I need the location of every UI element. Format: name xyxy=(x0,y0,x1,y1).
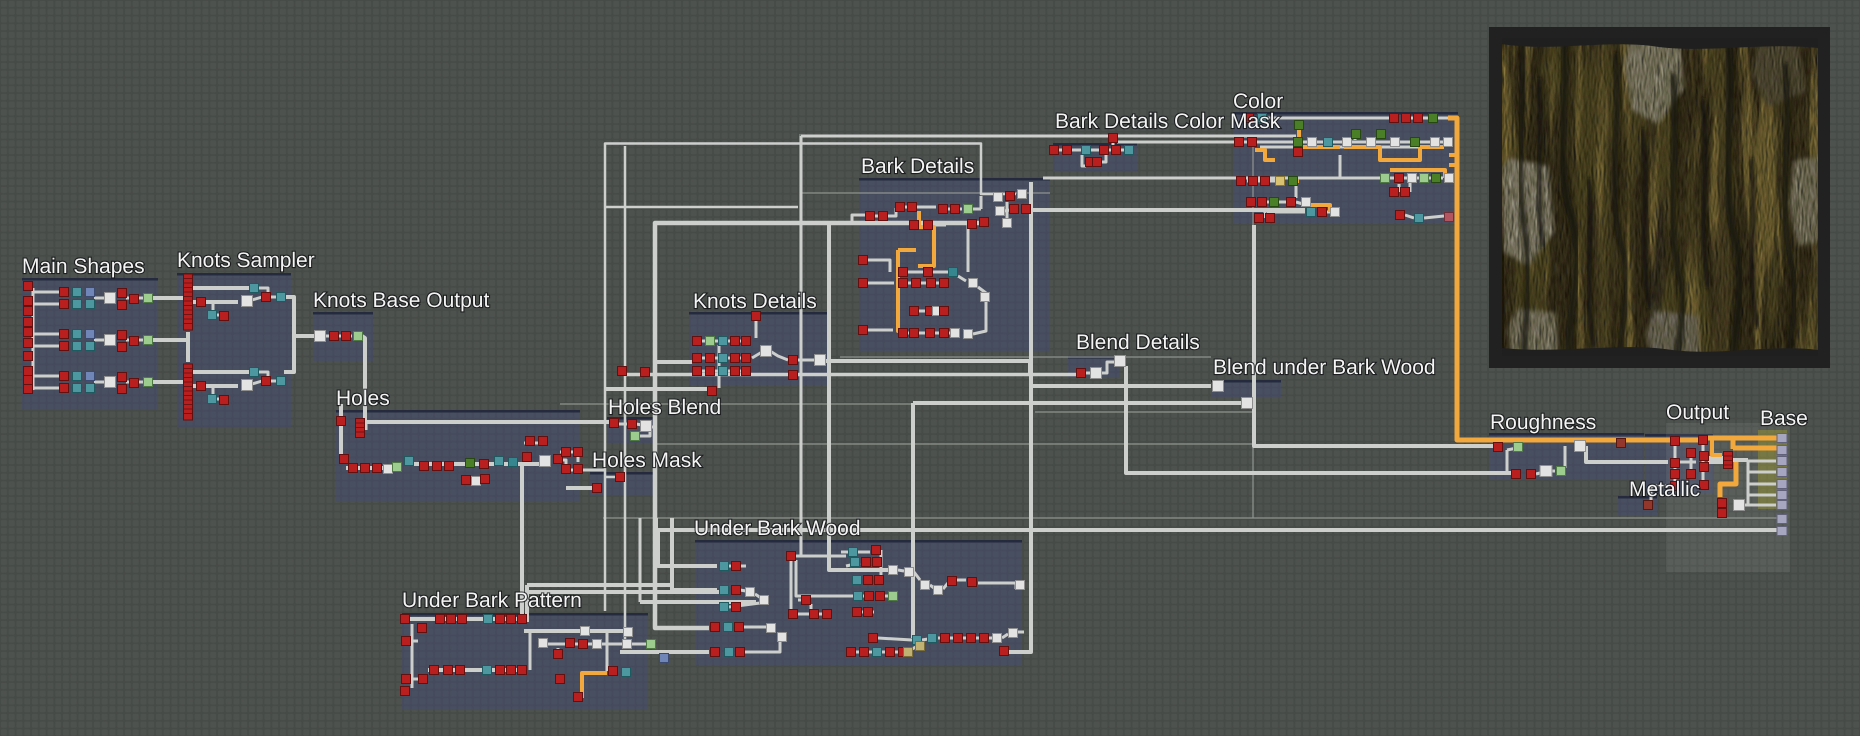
wire xyxy=(605,206,798,209)
svg-text:Metallic: Metallic xyxy=(1629,478,1700,501)
group panel "Blend Details" xyxy=(1068,356,1120,378)
node red xyxy=(1700,463,1709,472)
node white xyxy=(105,335,116,346)
node red xyxy=(1248,138,1257,147)
node white xyxy=(993,634,1002,643)
node red xyxy=(869,634,878,643)
node red xyxy=(731,354,740,363)
wire xyxy=(1690,452,1693,472)
wire xyxy=(1339,155,1342,178)
node red xyxy=(24,376,33,385)
wire xyxy=(1336,146,1430,149)
group panel "Knots Details" xyxy=(689,312,830,385)
wire xyxy=(527,590,720,594)
wire xyxy=(1002,634,1008,638)
node teal xyxy=(483,666,492,675)
wire xyxy=(605,144,1016,612)
node dgreen xyxy=(1295,121,1304,130)
node red xyxy=(60,330,69,339)
node teal xyxy=(720,562,729,571)
wire xyxy=(404,462,545,466)
node red xyxy=(810,610,819,619)
wire xyxy=(801,135,1296,138)
group panel "Bark Details Color Mask" xyxy=(1053,143,1137,172)
node red xyxy=(1671,482,1680,491)
wire xyxy=(938,637,992,640)
wire (highlighted orange) xyxy=(898,248,916,252)
node red xyxy=(859,279,868,288)
node dgreen xyxy=(466,459,475,468)
node red xyxy=(337,417,346,426)
node red xyxy=(910,307,919,316)
svg-text:Knots Details: Knots Details xyxy=(693,290,817,313)
group panel "Output" xyxy=(1645,434,1713,493)
node red xyxy=(1237,177,1246,186)
node red xyxy=(356,419,365,438)
node red xyxy=(433,462,442,471)
node teal xyxy=(1082,146,1091,155)
wire xyxy=(1507,447,1522,450)
node dgreen xyxy=(1270,198,1279,207)
wire xyxy=(252,381,262,384)
wire (highlighted orange) xyxy=(1390,170,1445,178)
wire xyxy=(852,579,862,582)
node red xyxy=(927,279,936,288)
wire xyxy=(852,595,864,598)
node red xyxy=(1050,146,1059,155)
wire xyxy=(744,640,780,652)
node teal xyxy=(720,603,729,612)
wire xyxy=(1108,149,1125,152)
node red xyxy=(1235,138,1244,147)
node teal xyxy=(853,576,862,585)
node white xyxy=(1302,198,1311,207)
node red xyxy=(330,332,339,341)
wire xyxy=(346,466,400,470)
node lav xyxy=(1777,446,1787,455)
node red xyxy=(1724,452,1733,469)
wire xyxy=(922,639,928,640)
node teal xyxy=(73,384,82,393)
wire xyxy=(605,387,708,391)
node lav xyxy=(1777,515,1787,524)
wire xyxy=(636,424,642,425)
node white xyxy=(1009,629,1018,638)
node red xyxy=(693,367,702,376)
wire xyxy=(878,638,912,640)
node red xyxy=(735,623,744,632)
wire xyxy=(639,518,642,602)
node tan xyxy=(904,648,913,657)
node red xyxy=(420,462,429,471)
wire xyxy=(868,260,890,272)
node white xyxy=(969,279,978,288)
node white xyxy=(1540,466,1552,477)
node red xyxy=(373,464,382,473)
node white xyxy=(1343,138,1352,147)
node pink xyxy=(1445,213,1454,222)
node red xyxy=(184,364,193,420)
node red xyxy=(708,387,717,396)
node white xyxy=(105,293,116,304)
svg-text:Blend under Bark Wood: Blend under Bark Wood xyxy=(1213,356,1436,379)
wire xyxy=(152,296,186,300)
wire xyxy=(126,381,152,384)
wire xyxy=(980,196,983,209)
node white xyxy=(1431,138,1440,147)
wire xyxy=(755,594,764,600)
node red xyxy=(447,615,456,624)
wire (highlighted orange) xyxy=(1308,205,1330,212)
node red xyxy=(496,615,505,624)
svg-text:Blend Details: Blend Details xyxy=(1076,331,1200,354)
node dred xyxy=(1617,439,1626,448)
wire xyxy=(978,583,1016,589)
node white xyxy=(996,207,1005,216)
node white xyxy=(1003,219,1012,228)
wire xyxy=(913,401,1244,405)
node lav xyxy=(1777,434,1787,443)
node lgreen xyxy=(1381,174,1390,183)
node red xyxy=(875,576,884,585)
wire xyxy=(339,404,343,462)
wire xyxy=(258,372,277,381)
wire xyxy=(1043,177,1380,180)
node white xyxy=(623,640,632,649)
node red xyxy=(866,212,875,221)
node blue xyxy=(86,372,95,381)
node red xyxy=(941,634,950,643)
wire xyxy=(790,556,793,614)
node red xyxy=(896,203,905,212)
node red xyxy=(507,615,516,624)
wire xyxy=(884,595,888,598)
node white xyxy=(593,640,602,649)
node red xyxy=(899,648,908,657)
node lgreen xyxy=(144,294,153,303)
node red xyxy=(340,455,349,464)
node lgreen xyxy=(706,337,715,346)
node white xyxy=(581,627,590,636)
wire xyxy=(1732,458,1748,462)
node white xyxy=(1408,174,1417,183)
node red xyxy=(481,475,490,484)
node teal xyxy=(928,634,937,643)
node red xyxy=(1494,443,1503,452)
node white xyxy=(1445,174,1454,183)
node white xyxy=(641,421,652,432)
selection highlight overlay near Output xyxy=(1666,423,1790,572)
node red xyxy=(876,592,885,601)
node red xyxy=(1287,198,1296,207)
node teal xyxy=(1258,114,1267,123)
node red xyxy=(879,212,888,221)
node red xyxy=(823,610,832,619)
node red xyxy=(1093,158,1102,167)
node white xyxy=(539,639,548,648)
node red xyxy=(419,675,428,684)
node red xyxy=(1700,481,1709,490)
wire xyxy=(625,373,1076,377)
node teal xyxy=(495,457,504,466)
wire xyxy=(213,386,220,399)
wire xyxy=(918,310,940,313)
node white xyxy=(540,456,551,467)
node lgreen xyxy=(1557,467,1566,476)
node red xyxy=(574,465,583,474)
node white xyxy=(1115,356,1126,367)
node red xyxy=(60,372,69,381)
node teal xyxy=(719,367,728,376)
wire xyxy=(1004,182,1031,652)
node red xyxy=(706,367,715,376)
group panel "Roughness" xyxy=(1489,433,1644,480)
node red xyxy=(1687,470,1696,479)
group panel "Holes" xyxy=(336,410,580,502)
node red xyxy=(458,615,467,624)
wire xyxy=(880,550,883,575)
wire xyxy=(862,611,874,614)
node white xyxy=(815,355,826,366)
node white xyxy=(905,568,914,577)
node dgreen xyxy=(1432,174,1441,183)
node teal xyxy=(1324,138,1333,147)
node red xyxy=(899,329,908,338)
svg-text:Holes: Holes xyxy=(336,387,390,410)
wire xyxy=(770,351,788,360)
node red xyxy=(430,666,439,675)
wire xyxy=(366,420,609,424)
node red xyxy=(1395,174,1404,183)
node blue xyxy=(660,654,669,663)
node red xyxy=(1699,436,1708,445)
wire xyxy=(553,460,604,470)
node teal xyxy=(719,354,728,363)
node white xyxy=(1016,581,1025,590)
node red xyxy=(1006,192,1015,201)
node red xyxy=(220,312,229,321)
node white xyxy=(1367,138,1376,147)
node red xyxy=(197,298,206,307)
node red xyxy=(456,666,465,675)
node lgreen xyxy=(889,592,898,601)
node red xyxy=(742,354,751,363)
node red xyxy=(523,453,532,462)
node red xyxy=(1245,114,1254,123)
node red xyxy=(924,268,933,277)
node red xyxy=(24,339,33,348)
node teal xyxy=(73,288,82,297)
node white xyxy=(1331,208,1340,217)
node dgreen xyxy=(1352,130,1361,139)
node white xyxy=(242,380,253,391)
node red xyxy=(118,373,127,382)
node lgreen xyxy=(631,432,640,441)
wire xyxy=(1013,632,1024,637)
wire xyxy=(1507,450,1516,473)
node red xyxy=(445,462,454,471)
node red xyxy=(526,437,535,446)
wire xyxy=(32,288,35,390)
wire xyxy=(94,297,116,300)
svg-text:Bark Details Color Mask: Bark Details Color Mask xyxy=(1055,110,1281,133)
group panel "Color" xyxy=(1233,112,1458,223)
node dgreen xyxy=(1289,177,1298,186)
node red xyxy=(593,484,602,493)
wire xyxy=(700,340,748,343)
node dgreen xyxy=(1411,138,1420,147)
node white xyxy=(1444,138,1453,147)
wire xyxy=(606,632,609,671)
wire xyxy=(656,518,1782,530)
node red xyxy=(342,332,351,341)
wire xyxy=(852,215,866,221)
wire xyxy=(1708,460,1724,464)
wire xyxy=(672,518,717,590)
wire xyxy=(1254,225,1498,446)
svg-text:Knots Sampler: Knots Sampler xyxy=(177,249,315,272)
wire xyxy=(875,208,896,216)
svg-text:Main Shapes: Main Shapes xyxy=(22,255,145,278)
node red xyxy=(789,356,798,365)
wire xyxy=(1317,211,1330,214)
node red xyxy=(24,385,33,394)
node yellow xyxy=(1276,177,1285,186)
wire xyxy=(796,560,852,596)
node white xyxy=(994,193,1003,202)
wire xyxy=(651,426,655,429)
svg-text:Color: Color xyxy=(1233,90,1283,113)
wire xyxy=(1409,183,1412,192)
node white xyxy=(760,596,769,605)
wire xyxy=(1390,177,1443,180)
wire xyxy=(906,282,948,285)
node red xyxy=(496,666,505,675)
node teal xyxy=(86,300,95,309)
node red xyxy=(980,218,989,227)
wire xyxy=(1260,146,1295,149)
wire xyxy=(796,555,846,558)
node red xyxy=(940,307,949,316)
node red xyxy=(847,648,856,657)
wire (highlighted orange) xyxy=(1288,179,1299,183)
node lgreen xyxy=(647,640,656,649)
node red xyxy=(1255,214,1264,223)
node lgreen xyxy=(1420,174,1429,183)
wire xyxy=(1747,461,1750,505)
wire xyxy=(868,282,894,285)
node red xyxy=(539,437,548,446)
wire xyxy=(1112,142,1115,146)
wire xyxy=(973,208,981,211)
node red xyxy=(899,268,908,277)
node red xyxy=(1687,449,1696,458)
wire xyxy=(729,603,760,607)
node teal xyxy=(405,457,414,466)
wire xyxy=(152,338,186,342)
wire (highlighted orange) xyxy=(1720,462,1736,497)
node lav xyxy=(1777,468,1787,477)
wire xyxy=(1305,146,1340,149)
node red xyxy=(1671,470,1680,479)
wire xyxy=(193,300,238,304)
node red xyxy=(130,295,139,304)
wire xyxy=(294,334,316,338)
wire xyxy=(1744,504,1776,507)
wire xyxy=(428,668,522,672)
node red xyxy=(402,637,411,646)
node white xyxy=(1308,138,1317,147)
group panel "Under Bark Pattern" xyxy=(402,613,648,710)
wire xyxy=(978,287,986,293)
node red xyxy=(742,367,751,376)
node red xyxy=(968,578,977,587)
node red xyxy=(118,289,127,298)
node white xyxy=(1213,381,1224,392)
wire xyxy=(126,339,152,342)
node white xyxy=(105,377,116,388)
node red xyxy=(554,650,563,659)
node red xyxy=(865,592,874,601)
group panel "Knots Base Output" xyxy=(313,312,373,361)
wire xyxy=(213,302,220,315)
wire xyxy=(362,336,365,424)
node teal xyxy=(1307,208,1316,217)
wire xyxy=(1246,141,1290,144)
node red xyxy=(853,608,862,617)
wire xyxy=(619,423,628,426)
node red xyxy=(948,577,957,586)
wire xyxy=(700,370,748,373)
node red xyxy=(787,552,796,561)
node red xyxy=(1390,188,1399,197)
wire (highlighted orange) xyxy=(1733,446,1777,451)
node teal xyxy=(719,337,728,346)
wire xyxy=(557,648,560,651)
node teald xyxy=(949,268,958,277)
wire (highlighted orange) xyxy=(1344,147,1444,160)
wire (highlighted orange) xyxy=(918,211,934,266)
wire xyxy=(1059,149,1082,152)
node red xyxy=(60,342,69,351)
node red xyxy=(908,203,917,212)
wire xyxy=(193,370,250,374)
node red xyxy=(574,693,583,702)
node red xyxy=(1000,647,1009,656)
node white xyxy=(746,588,755,597)
wire xyxy=(1295,185,1298,198)
wire xyxy=(956,579,966,582)
node red xyxy=(899,279,908,288)
svg-text:Holes Blend: Holes Blend xyxy=(608,396,721,419)
node lgreen xyxy=(144,378,153,387)
node red xyxy=(939,205,948,214)
wire xyxy=(740,590,746,591)
node teal xyxy=(73,300,82,309)
node red xyxy=(24,297,33,306)
wire xyxy=(33,387,62,390)
wire (highlighted orange) xyxy=(1255,150,1275,160)
wire xyxy=(640,430,650,436)
svg-text:Under Bark Wood: Under Bark Wood xyxy=(694,517,861,540)
node red xyxy=(616,473,625,482)
wire xyxy=(1551,470,1555,473)
wire xyxy=(284,297,294,372)
node red xyxy=(711,623,720,632)
node red xyxy=(24,282,33,291)
node teal xyxy=(250,284,259,293)
node red xyxy=(742,337,751,346)
